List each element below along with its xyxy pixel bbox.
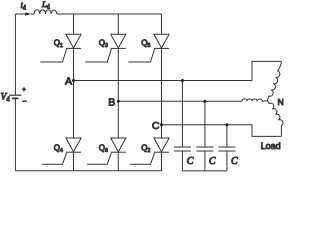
thyristor Q6 bbox=[87, 138, 126, 164]
thyristor Q4 bbox=[42, 138, 81, 164]
thyristor Q3 bbox=[85, 34, 126, 62]
source Vd bbox=[9, 94, 22, 96]
wire leg3 bbox=[161, 14, 163, 171]
thyristor Q5 bbox=[128, 34, 169, 62]
svg-text:Vd: Vd bbox=[1, 93, 11, 104]
svg-text:C: C bbox=[152, 120, 160, 132]
wire bottom bus bbox=[15, 170, 161, 172]
capacitor C3 bbox=[218, 123, 238, 171]
svg-text:Q3: Q3 bbox=[99, 38, 108, 49]
wire capacitor rail bbox=[182, 170, 227, 172]
wire top bus bbox=[15, 13, 161, 15]
load winding phase A bbox=[268, 61, 282, 100]
capacitor C2 bbox=[196, 100, 216, 171]
svg-text:C: C bbox=[231, 156, 238, 167]
svg-text:Load: Load bbox=[261, 141, 281, 151]
arrow id bbox=[25, 12, 31, 16]
wire phase B bbox=[118, 100, 242, 102]
svg-text:Q1: Q1 bbox=[54, 38, 63, 49]
svg-text:Q4: Q4 bbox=[54, 143, 63, 154]
thyristor Q2 bbox=[130, 138, 169, 164]
svg-text:Ld: Ld bbox=[41, 0, 50, 11]
thyristor Q1 bbox=[40, 34, 81, 62]
svg-text:+: + bbox=[22, 88, 26, 94]
capacitor C1 bbox=[174, 79, 194, 171]
svg-text:Q2: Q2 bbox=[141, 143, 150, 154]
svg-text:id: id bbox=[21, 0, 26, 12]
load winding phase B bbox=[242, 99, 268, 101]
svg-text:C: C bbox=[209, 156, 216, 167]
svg-text:A: A bbox=[65, 75, 72, 87]
svg-text:B: B bbox=[108, 97, 115, 109]
wire phase A bbox=[74, 61, 282, 80]
svg-text:−: − bbox=[22, 99, 26, 106]
node A dot bbox=[72, 79, 75, 82]
svg-text:C: C bbox=[187, 156, 194, 167]
load winding phase C bbox=[268, 101, 284, 137]
svg-text:N: N bbox=[278, 97, 284, 107]
wire left bbox=[14, 14, 16, 171]
node C dot bbox=[160, 123, 163, 126]
node B dot bbox=[117, 100, 120, 103]
wire leg2 bbox=[117, 14, 119, 171]
wire leg1 bbox=[73, 14, 75, 171]
wire phase C bbox=[162, 125, 282, 137]
inductor Ld bbox=[34, 10, 57, 14]
svg-text:Q5: Q5 bbox=[141, 38, 150, 49]
svg-text:Q6: Q6 bbox=[99, 143, 108, 154]
